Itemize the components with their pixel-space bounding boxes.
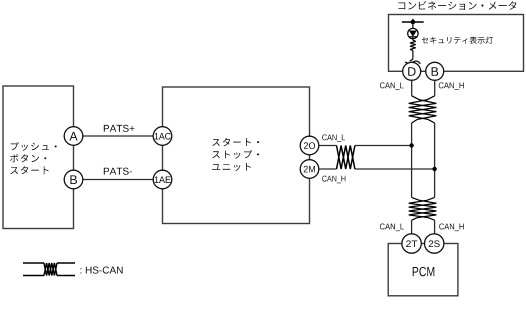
- twisted pair HS-CAN vertical lower: [409, 197, 437, 220]
- label PCM: [413, 267, 435, 276]
- inline connector hook symbol: [410, 57, 413, 61]
- label CAN_L at 2T: [380, 224, 404, 232]
- label CAN_H at 2M: [322, 176, 345, 184]
- resistor zigzag: [410, 40, 416, 50]
- label: start stop unit line1: [212, 138, 259, 146]
- wire CAN_L bus middle: [411, 123, 413, 197]
- wire LED to resistor: [412, 37, 414, 40]
- wire resistor to connector hook: [412, 50, 414, 57]
- box: start-stop unit: [163, 87, 310, 224]
- label CAN_H at 2S: [439, 224, 464, 232]
- connector pin D: [403, 62, 421, 80]
- wire PATS+ A to 1AC: [74, 135, 163, 137]
- box: push-button start unit: [3, 86, 74, 229]
- wire PATS- B to 1AE: [74, 179, 163, 181]
- box: combination meter: [389, 15, 524, 72]
- junction dot CAN_H: [432, 167, 436, 171]
- wire CAN_L bus to 2T: [411, 220, 413, 243]
- label CAN_L at 2O: [322, 134, 345, 142]
- label CAN_L at D: [380, 82, 404, 90]
- wire stub above junction: [412, 19, 414, 22]
- label: start stop unit line3: [212, 163, 251, 171]
- connector pin 2S: [425, 234, 444, 253]
- connector pin 2T: [402, 234, 421, 253]
- connector pin 2O: [300, 136, 319, 155]
- wire CAN_H bus to 2S: [434, 220, 436, 243]
- connector pin A: [64, 127, 83, 146]
- wire CAN_H from 2M: [310, 168, 337, 170]
- label: push button start line1: [11, 142, 57, 151]
- connector pin 1AE: [153, 170, 172, 189]
- LED security lamp symbol: [408, 28, 418, 38]
- connector pin 1AC: [153, 127, 172, 146]
- wire rail to LED: [412, 22, 414, 28]
- twisted pair HS-CAN vertical upper: [409, 96, 437, 123]
- label: security indicator lamp: [422, 37, 493, 44]
- wire CAN_H to junction: [355, 168, 435, 170]
- label CAN_H at B: [439, 82, 464, 90]
- wire CAN_L bus upper: [411, 80, 413, 96]
- legend label HS-CAN: [80, 267, 122, 274]
- junction dot on rail: [411, 20, 416, 25]
- box: PCM: [388, 244, 458, 296]
- twisted pair HS-CAN horizontal: [337, 146, 355, 170]
- label PATS+: [104, 125, 135, 132]
- label: push button start line2: [10, 154, 46, 162]
- label: start stop unit line2: [212, 150, 259, 159]
- label PATS-: [104, 168, 132, 175]
- label: combination meter title: [398, 1, 516, 10]
- power rail bar inside meter: [402, 21, 424, 23]
- wire CAN_H bus middle: [434, 123, 436, 197]
- label: push button start line3: [10, 166, 48, 174]
- connector pin B (meter): [426, 62, 444, 80]
- legend twisted-pair symbol: [23, 262, 44, 264]
- connector pin B: [64, 170, 83, 189]
- connector pin 2M: [300, 160, 319, 179]
- junction dot CAN_L: [409, 143, 413, 147]
- wire CAN_L to junction: [355, 145, 412, 147]
- wire CAN_H bus upper: [434, 80, 436, 96]
- wire CAN_L from 2O: [310, 145, 337, 147]
